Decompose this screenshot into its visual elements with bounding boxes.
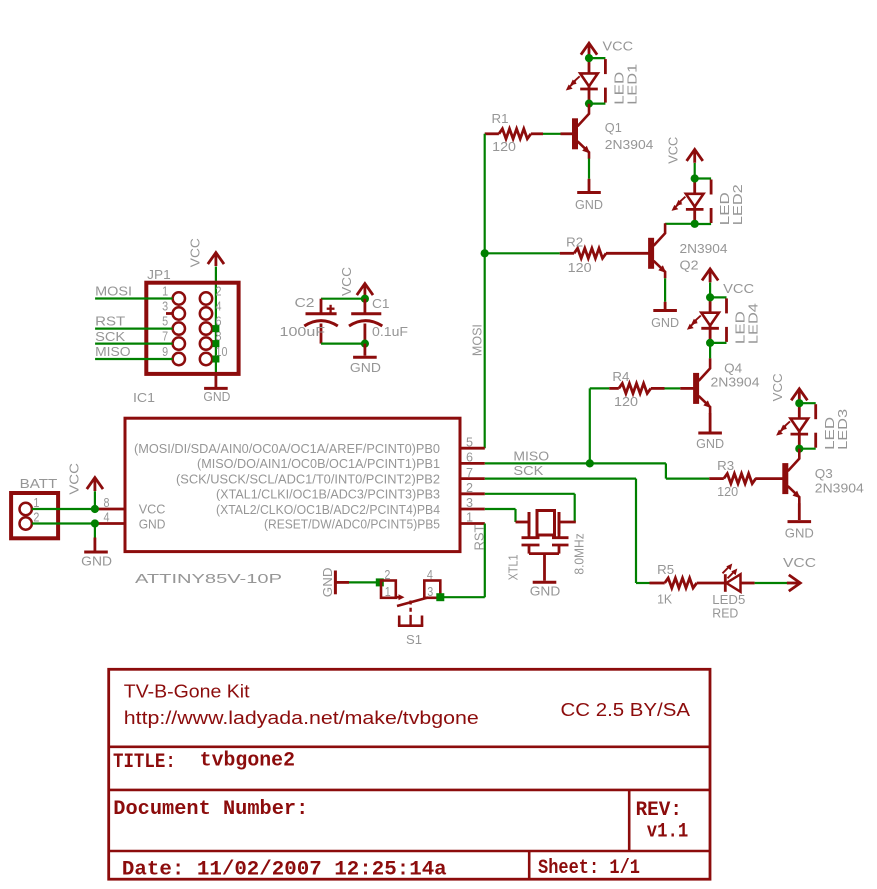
svg-text:IC1: IC1 [133, 390, 155, 405]
svg-text:S1: S1 [406, 632, 422, 647]
svg-text:5: 5 [466, 434, 473, 449]
titleblock divider 2 [109, 789, 710, 792]
JP1 pin circle right row 2 [200, 307, 212, 319]
svg-text:RST: RST [95, 314, 125, 329]
node LED1 anode junction [585, 54, 593, 62]
ground below Q1 [577, 191, 601, 194]
power VCC symbol right of LED5 [787, 582, 800, 585]
svg-text:R1: R1 [492, 111, 509, 126]
ground left of S1 [334, 571, 337, 595]
svg-text:Document Number:: Document Number: [113, 798, 308, 821]
resistor R1 120 [485, 132, 499, 135]
power VCC symbol for LED3 [798, 389, 801, 402]
JP1 pin circle left row 2 [173, 307, 185, 319]
JP1 pin circle left row 5 [173, 353, 185, 365]
wire Q1 base stub [561, 132, 573, 135]
node JP1 pin8 junction [212, 340, 219, 347]
transistor Q4 2N3904 [693, 373, 699, 404]
power VCC symbol for LED4 [709, 269, 712, 282]
IC right pin stub 7 [460, 477, 485, 480]
IC left pin stub 8 [97, 508, 125, 511]
wire MOSI vertical net [484, 134, 486, 448]
LED LED2 [693, 179, 696, 194]
LED LED5 RED [724, 574, 727, 592]
svg-text:VCC: VCC [783, 555, 816, 570]
wire SCK net [485, 478, 636, 480]
svg-text:(MISO/DO/AIN1/OC0B/OC1A/PCINT1: (MISO/DO/AIN1/OC0B/OC1A/PCINT1)PB1 [197, 456, 440, 471]
wire MISO to JP1 [95, 358, 173, 360]
svg-text:VCC: VCC [188, 238, 203, 267]
wire Q2 emitter [664, 278, 666, 302]
node MISO junction [586, 459, 594, 467]
ground below XTL1 [533, 581, 557, 584]
svg-text:http://www.ladyada.net/make/tv: http://www.ladyada.net/make/tvbgone [124, 708, 479, 728]
svg-text:8.0MHz: 8.0MHz [571, 533, 586, 574]
BATT pin circle 1 [20, 503, 32, 515]
svg-text:5: 5 [162, 313, 168, 328]
svg-text:GND: GND [651, 315, 679, 330]
node LED4 anode junction [706, 293, 714, 301]
IC right pin stub 6 [460, 462, 485, 465]
svg-text:VCC: VCC [67, 463, 82, 495]
JP1 pin circle right row 3 [200, 322, 212, 334]
ground below Q4 [698, 432, 722, 435]
svg-text:3: 3 [427, 584, 433, 599]
wire PB3 to XTL1 [485, 493, 575, 495]
wire BATT pin2 to GND [32, 522, 97, 524]
node BATT VCC junction [91, 505, 99, 513]
svg-text:GND: GND [320, 568, 335, 598]
wire VCC into JP1 [215, 267, 217, 374]
LED LED4 [709, 297, 712, 312]
svg-text:(RESET/DW/ADC0/PCINT5)PB5: (RESET/DW/ADC0/PCINT5)PB5 [264, 516, 440, 531]
svg-text:SCK: SCK [95, 329, 125, 344]
svg-text:120: 120 [614, 394, 638, 409]
JP1 pin circle right row 4 [200, 337, 212, 349]
wire GND to S1 [349, 581, 380, 583]
wire JP1 to ground [214, 374, 217, 387]
node S1 pin3 junction [436, 593, 444, 601]
IC box ATTINY85V-10P [125, 418, 460, 551]
IC right pin stub 5 [460, 447, 485, 450]
node LED3 anode junction [795, 399, 803, 407]
svg-text:3: 3 [162, 298, 168, 313]
svg-text:VCC: VCC [770, 373, 785, 401]
svg-text:(XTAL1/CLKI/OC1B/ADC3/PCINT3)P: (XTAL1/CLKI/OC1B/ADC3/PCINT3)PB3 [216, 487, 440, 502]
svg-text:JP1: JP1 [147, 267, 171, 282]
node LED2 anode junction [691, 174, 699, 182]
wire VCC to LED1 [588, 57, 590, 58]
node JP1 pin10 junction [212, 356, 219, 363]
node R2 junction [481, 249, 489, 257]
node LED3 cathode junction [795, 445, 803, 453]
wire LED4 to Q4 collector [709, 343, 711, 359]
titleblock Sheet divider [528, 851, 531, 879]
wire BATT pin1 to VCC [32, 508, 97, 510]
transistor Q3 2N3904 [782, 463, 788, 494]
ground below C1 [353, 356, 377, 359]
node LED1 cathode junction [585, 100, 593, 108]
wire LED5 to VCC [755, 582, 789, 584]
wire Q4 base stub [680, 387, 693, 390]
wire Q1 emitter [588, 159, 590, 179]
svg-text:v1.1: v1.1 [647, 821, 689, 844]
ground below Q3 [788, 520, 812, 523]
titleblock divider 1 [109, 745, 710, 748]
svg-text:R5: R5 [657, 562, 674, 577]
svg-text:6: 6 [466, 450, 473, 465]
wire Q3 emitter [798, 503, 801, 520]
wire PB4 to XTL1 [485, 508, 516, 510]
svg-text:R4: R4 [612, 369, 629, 384]
power VCC symbol at BATT [94, 478, 97, 491]
JP1 pin circle right row 1 [200, 292, 212, 304]
svg-text:REV:: REV: [636, 799, 682, 822]
switch S1 actuator [409, 601, 411, 616]
svg-text:LED3: LED3 [835, 409, 850, 450]
power VCC symbol above C1 [363, 284, 366, 297]
svg-text:120: 120 [568, 260, 592, 275]
svg-text:1: 1 [466, 510, 473, 525]
svg-text:ATTINY85V-10P: ATTINY85V-10P [135, 571, 282, 586]
svg-text:GND: GND [81, 554, 112, 569]
switch S1 right contact [424, 581, 440, 598]
LED LED1 [588, 58, 591, 73]
wire Q4 base net [665, 387, 681, 389]
svg-text:LED4: LED4 [746, 303, 761, 344]
BATT pin circle 2 [20, 517, 32, 529]
svg-text:2: 2 [384, 567, 390, 582]
svg-text:LED1: LED1 [625, 64, 640, 105]
svg-text:120: 120 [717, 484, 738, 499]
LED LED3 [798, 403, 801, 418]
svg-text:9: 9 [162, 344, 168, 359]
wire SCK to JP1 [95, 343, 173, 345]
wire LED2 to Q2 collector [665, 223, 695, 225]
svg-text:3: 3 [466, 495, 473, 510]
svg-text:MOSI: MOSI [95, 284, 132, 299]
ground below BATT [84, 551, 108, 554]
IC right pin stub 1 [460, 522, 485, 525]
svg-text:4: 4 [104, 510, 110, 525]
svg-text:2N3904: 2N3904 [680, 241, 728, 256]
svg-text:TV-B-Gone Kit: TV-B-Gone Kit [124, 682, 250, 702]
wire GND drop at BATT [94, 524, 96, 538]
IC right pin stub 3 [460, 508, 485, 511]
ground below JP1 [204, 387, 228, 390]
svg-text:(SCK/USCK/SCL/ADC1/T0/INT0/PCI: (SCK/USCK/SCL/ADC1/T0/INT0/PCINT2)PB2 [176, 471, 440, 486]
svg-text:CC 2.5 BY/SA: CC 2.5 BY/SA [561, 700, 691, 720]
svg-text:2N3904: 2N3904 [711, 374, 760, 389]
node S1 pin2 junction [376, 578, 384, 586]
resonator XTL1 8.0MHz [516, 521, 530, 524]
capacitor C2 100uF [320, 299, 323, 314]
svg-text:VCC: VCC [666, 137, 681, 164]
resistor R5 1K [650, 582, 665, 585]
svg-text:120: 120 [492, 139, 516, 154]
switch S1 lever [396, 596, 401, 599]
resistor R3 120 [709, 477, 724, 480]
svg-text:(MOSI/DI/SDA/AIN0/OC0A/OC1A/AR: (MOSI/DI/SDA/AIN0/OC0A/OC1A/AREF/PCINT0)… [134, 441, 440, 456]
svg-text:GND: GND [696, 436, 724, 451]
svg-text:XTL1: XTL1 [506, 554, 521, 580]
svg-text:MOSI: MOSI [470, 324, 485, 356]
IC left pin stub 4 [97, 522, 125, 525]
svg-text:GND: GND [203, 389, 230, 404]
JP1 pin circle left row 3 [173, 322, 185, 334]
svg-text:100uF: 100uF [280, 324, 326, 339]
wire R4 to MISO net [590, 387, 609, 389]
svg-text:1: 1 [385, 584, 391, 599]
wire PB5 to S1 [484, 524, 486, 598]
connector JP1 box [146, 283, 238, 374]
svg-text:7: 7 [162, 328, 168, 343]
svg-text:7: 7 [466, 465, 473, 480]
svg-text:TITLE:: TITLE: [113, 751, 176, 774]
resistor R4 120 [609, 387, 619, 390]
JP1 pin circle left row 4 [173, 337, 185, 349]
ground below Q2 [653, 309, 677, 312]
svg-text:2: 2 [466, 480, 473, 495]
svg-text:Q2: Q2 [680, 258, 699, 273]
svg-text:2N3904: 2N3904 [815, 480, 864, 495]
connector BATT box [11, 493, 58, 538]
svg-text:Sheet: 1/1: Sheet: 1/1 [538, 857, 640, 880]
titleblock REV divider [628, 790, 631, 851]
svg-text:GND: GND [575, 197, 603, 212]
node C1 top junction [361, 295, 369, 303]
power VCC symbol for LED1 [588, 43, 591, 56]
svg-text:MISO: MISO [95, 344, 131, 359]
svg-text:R3: R3 [717, 458, 734, 473]
svg-text:tvbgone2: tvbgone2 [200, 750, 295, 773]
wire MOSI to JP1 [95, 297, 173, 299]
svg-text:Date: 11/02/2007 12:25:14a: Date: 11/02/2007 12:25:14a [122, 859, 447, 882]
wire MISO net [485, 462, 666, 464]
svg-text:1K: 1K [657, 592, 672, 607]
titleblock outer border [109, 669, 710, 879]
svg-text:2N3904: 2N3904 [605, 137, 654, 152]
power VCC symbol above JP1 [214, 253, 217, 266]
svg-text:RST: RST [472, 524, 487, 550]
svg-text:4: 4 [427, 567, 433, 582]
node LED2 cathode junction [691, 220, 699, 228]
svg-text:LED2: LED2 [730, 184, 745, 225]
node LED4 cathode junction [706, 339, 714, 347]
wire C2 to C1 bottom [321, 343, 365, 345]
wire Q1 base net [543, 133, 561, 135]
resistor R2 120 [574, 248, 606, 258]
svg-text:C2: C2 [295, 295, 315, 310]
svg-text:SCK: SCK [513, 463, 543, 478]
JP1 pin circle right row 5 [200, 353, 212, 365]
svg-text:RED: RED [712, 606, 738, 621]
svg-text:R2: R2 [566, 235, 583, 250]
titleblock divider 3 [109, 850, 710, 853]
svg-text:VCC: VCC [603, 38, 634, 53]
wire VCC to LED2 [694, 163, 696, 179]
wire VCC drop at BATT [94, 491, 96, 509]
wire C1 to ground [363, 344, 366, 356]
node JP1 pin6 junction [212, 325, 219, 332]
wire VCC to LED3 [798, 402, 800, 403]
svg-text:MISO: MISO [513, 449, 549, 464]
svg-text:C1: C1 [372, 296, 390, 311]
svg-text:1: 1 [162, 283, 168, 298]
svg-text:2: 2 [33, 510, 39, 525]
wire VCC to C1 [364, 297, 366, 299]
transistor Q2 2N3904 [648, 238, 654, 269]
svg-text:1: 1 [33, 495, 39, 510]
wire RST to JP1 [95, 328, 173, 330]
svg-text:Q1: Q1 [605, 120, 622, 135]
svg-text:0.1uF: 0.1uF [372, 324, 408, 339]
JP1 pin circle left row 1 [173, 292, 185, 304]
capacitor C1 0.1uF [363, 299, 366, 314]
svg-text:GND: GND [350, 360, 381, 375]
wire Q2 base stub [606, 252, 649, 255]
svg-text:Q3: Q3 [815, 466, 833, 481]
svg-text:VCC: VCC [139, 501, 166, 516]
wire R2 to MOSI net [485, 252, 560, 254]
svg-text:VCC: VCC [723, 281, 754, 296]
wire Q3 base stub [755, 477, 783, 480]
svg-text:GND: GND [785, 525, 814, 540]
svg-text:4: 4 [216, 298, 222, 313]
wire VCC to LED4 [709, 283, 711, 298]
switch S1 left contact [381, 581, 396, 598]
node C1 bottom junction [361, 340, 369, 348]
IC right pin stub 2 [460, 492, 485, 495]
svg-text:GND: GND [139, 517, 166, 532]
svg-text:VCC: VCC [339, 267, 354, 296]
JP1 pin 3 stub [166, 312, 173, 315]
wire C2 to C1 top [321, 298, 365, 300]
wire Q4 emitter [709, 413, 712, 432]
svg-text:(XTAL2/CLKO/OC1B/ADC2/PCINT4)P: (XTAL2/CLKO/OC1B/ADC2/PCINT4)PB4 [216, 502, 440, 517]
svg-text:8: 8 [104, 495, 110, 510]
svg-text:BATT: BATT [20, 476, 58, 491]
svg-text:2: 2 [216, 283, 222, 298]
transistor Q1 2N3904 [572, 118, 578, 149]
svg-text:GND: GND [530, 583, 561, 598]
power VCC symbol for LED2 [693, 150, 696, 163]
node BATT GND junction [91, 519, 99, 527]
